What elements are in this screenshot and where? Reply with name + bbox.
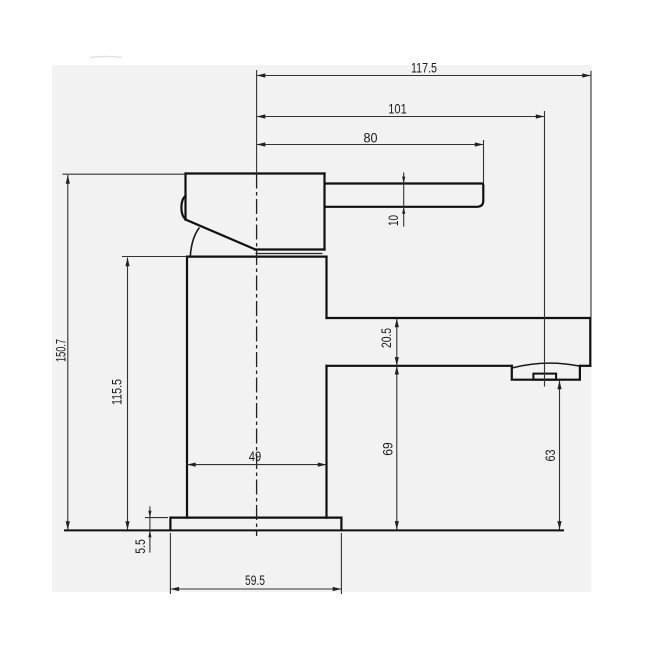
dimension 49 — [187, 448, 327, 465]
svg-text:80: 80 — [364, 130, 378, 146]
dimension 80 — [257, 130, 484, 184]
dimension 150.7 — [53, 174, 186, 530]
dimension 101 — [257, 101, 545, 387]
svg-text:101: 101 — [388, 101, 407, 117]
svg-text:117.5: 117.5 — [411, 60, 437, 76]
dimension 115.5 — [109, 257, 188, 531]
handle swing arc — [190, 228, 199, 257]
dimension 69 — [380, 366, 397, 530]
dimension 5.5 — [132, 506, 168, 553]
dimension 10 — [385, 172, 405, 226]
svg-text:115.5: 115.5 — [109, 379, 125, 405]
svg-text:59.5: 59.5 — [245, 572, 265, 588]
aerator insert — [533, 374, 556, 380]
dimension 63 — [542, 381, 560, 530]
svg-text:20.5: 20.5 — [378, 328, 394, 348]
photo background — [52, 65, 592, 592]
cartridge head — [186, 174, 325, 250]
svg-text:10: 10 — [385, 215, 401, 226]
aerator housing — [512, 363, 580, 380]
dimension 59.5 — [170, 533, 341, 594]
body center line (dashed) — [256, 174, 258, 537]
artifact smudge — [90, 57, 122, 58]
dimension 20.5 — [378, 319, 397, 366]
center line top extension — [256, 70, 258, 174]
dimension 117.5 — [257, 60, 591, 319]
svg-text:63: 63 — [542, 449, 558, 461]
handle pivot bump — [181, 196, 185, 219]
tap body — [187, 257, 327, 518]
svg-text:49: 49 — [249, 448, 262, 464]
svg-text:150.7: 150.7 — [53, 339, 69, 362]
svg-text:5.5: 5.5 — [132, 539, 148, 554]
svg-text:69: 69 — [380, 442, 396, 456]
base plate — [170, 518, 341, 530]
lever handle — [327, 184, 484, 207]
spout — [327, 318, 591, 366]
handle tilt diagonal — [186, 220, 256, 250]
head-body seam — [256, 253, 323, 255]
counter line — [64, 529, 564, 531]
